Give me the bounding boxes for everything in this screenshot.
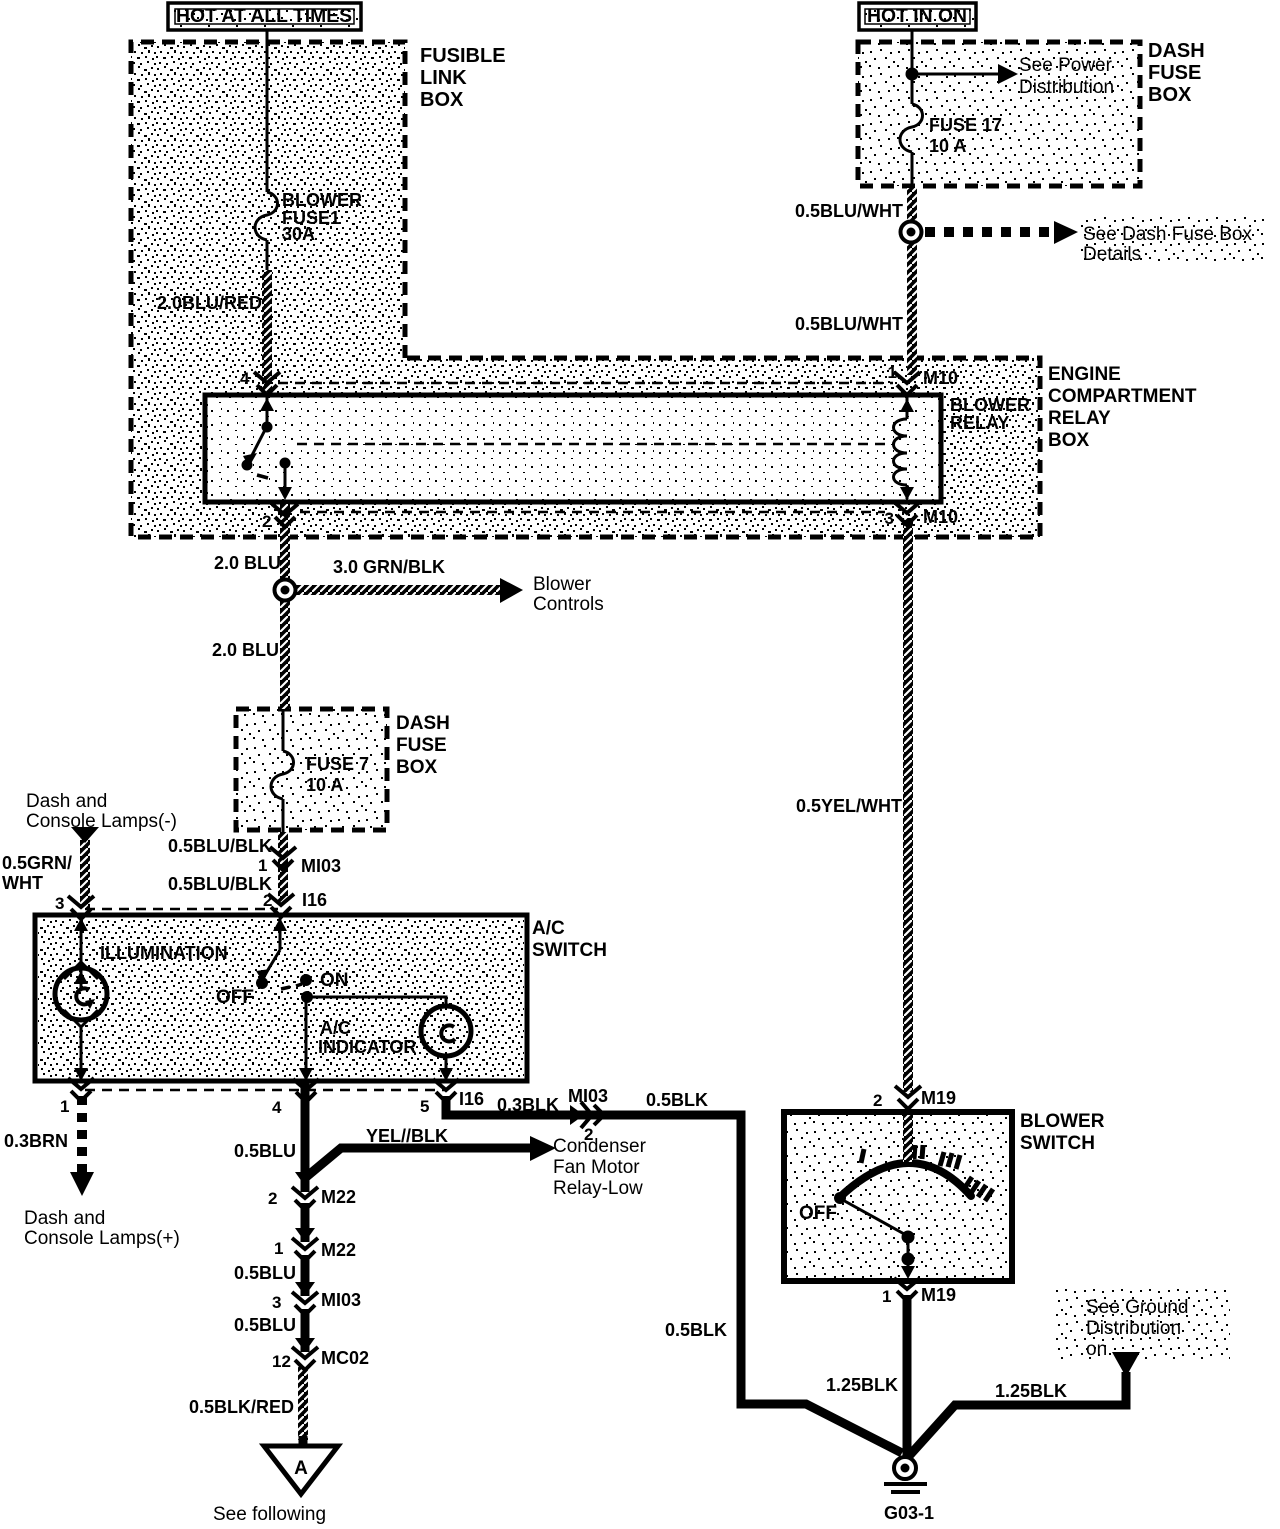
svg-text:OFF: OFF <box>216 987 254 1008</box>
svg-text:0.5GRN/: 0.5GRN/ <box>2 853 72 873</box>
svg-text:MI03: MI03 <box>568 1086 608 1106</box>
svg-text:COMPARTMENT: COMPARTMENT <box>1048 386 1197 407</box>
svg-text:0.5BLK: 0.5BLK <box>646 1090 708 1110</box>
svg-text:Blower: Blower <box>533 574 592 595</box>
svg-text:M10: M10 <box>923 507 958 527</box>
svg-text:MI03: MI03 <box>301 856 341 876</box>
svg-text:Console Lamps(-): Console Lamps(-) <box>26 811 177 832</box>
svg-text:Relay-Low: Relay-Low <box>553 1178 643 1199</box>
svg-text:WHT: WHT <box>2 873 43 893</box>
svg-text:0.5BLU: 0.5BLU <box>234 1141 296 1161</box>
svg-text:0.5YEL/WHT: 0.5YEL/WHT <box>796 796 902 816</box>
svg-text:HOT AT ALL TIMES: HOT AT ALL TIMES <box>176 6 352 27</box>
svg-text:0.5BLU/WHT: 0.5BLU/WHT <box>795 201 903 221</box>
svg-text:M22: M22 <box>321 1187 356 1207</box>
svg-text:Distribution: Distribution <box>1086 1318 1181 1339</box>
svg-text:1: 1 <box>882 1287 891 1306</box>
svg-text:3.0 GRN/BLK: 3.0 GRN/BLK <box>333 557 445 577</box>
svg-text:ILLUMINATION: ILLUMINATION <box>100 943 228 963</box>
svg-text:1.25BLK: 1.25BLK <box>995 1381 1067 1401</box>
svg-text:A/C: A/C <box>532 918 565 939</box>
svg-text:0.5BLK: 0.5BLK <box>665 1320 727 1340</box>
svg-text:3: 3 <box>55 894 64 913</box>
svg-text:FUSE: FUSE <box>1148 62 1201 84</box>
svg-text:5: 5 <box>420 1097 429 1116</box>
svg-text:SWITCH: SWITCH <box>532 940 607 961</box>
svg-text:Dash and: Dash and <box>24 1208 105 1229</box>
svg-text:DASH: DASH <box>396 713 450 734</box>
svg-text:2.0 BLU: 2.0 BLU <box>212 640 279 660</box>
svg-text:M19: M19 <box>921 1088 956 1108</box>
svg-text:M19: M19 <box>921 1285 956 1305</box>
svg-text:0.5BLU/BLK: 0.5BLU/BLK <box>168 874 272 894</box>
svg-text:MI03: MI03 <box>321 1290 361 1310</box>
svg-text:4: 4 <box>272 1098 282 1117</box>
svg-text:BOX: BOX <box>1048 430 1090 451</box>
svg-text:BOX: BOX <box>420 89 464 111</box>
svg-text:A/C: A/C <box>320 1018 351 1038</box>
svg-text:A: A <box>294 1458 308 1479</box>
svg-text:0.5BLK/RED: 0.5BLK/RED <box>189 1397 294 1417</box>
svg-text:ENGINE: ENGINE <box>1048 364 1121 385</box>
svg-text:1: 1 <box>274 1239 283 1258</box>
svg-text:2: 2 <box>268 1189 277 1208</box>
svg-text:G03-1: G03-1 <box>884 1503 934 1523</box>
svg-text:FUSIBLE: FUSIBLE <box>420 45 506 67</box>
svg-text:I16: I16 <box>459 1089 484 1109</box>
svg-text:OFF: OFF <box>799 1203 837 1224</box>
svg-text:RELAY: RELAY <box>950 413 1009 433</box>
svg-text:10 A: 10 A <box>929 136 966 156</box>
svg-text:Controls: Controls <box>533 594 604 615</box>
svg-text:0.3BRN: 0.3BRN <box>4 1131 68 1151</box>
svg-text:Console Lamps(+): Console Lamps(+) <box>24 1228 180 1249</box>
svg-text:SWITCH: SWITCH <box>1020 1133 1095 1154</box>
svg-text:0.5BLU/WHT: 0.5BLU/WHT <box>795 314 903 334</box>
svg-text:BOX: BOX <box>396 757 438 778</box>
svg-text:Fan Motor: Fan Motor <box>553 1157 640 1178</box>
svg-text:FUSE 7: FUSE 7 <box>306 754 369 774</box>
svg-text:RELAY: RELAY <box>1048 408 1111 429</box>
svg-text:Details: Details <box>1083 244 1141 265</box>
svg-text:10 A: 10 A <box>306 775 343 795</box>
svg-text:FUSE: FUSE <box>396 735 447 756</box>
svg-text:YEL//BLK: YEL//BLK <box>366 1126 448 1146</box>
svg-text:1: 1 <box>60 1097 69 1116</box>
svg-text:LINK: LINK <box>420 67 467 89</box>
svg-text:INDICATOR: INDICATOR <box>318 1037 416 1057</box>
svg-text:1: 1 <box>258 856 267 875</box>
svg-text:3: 3 <box>272 1293 281 1312</box>
svg-text:0.5BLU/BLK: 0.5BLU/BLK <box>168 836 272 856</box>
svg-text:BLOWER: BLOWER <box>950 395 1030 415</box>
svg-text:MC02: MC02 <box>321 1348 369 1368</box>
svg-text:1.25BLK: 1.25BLK <box>826 1375 898 1395</box>
svg-text:See Dash Fuse Box: See Dash Fuse Box <box>1083 224 1252 245</box>
svg-text:ON: ON <box>320 970 349 991</box>
svg-text:1: 1 <box>888 363 897 382</box>
svg-text:30A: 30A <box>282 224 315 244</box>
svg-text:See Ground: See Ground <box>1086 1297 1188 1318</box>
svg-text:0.3BLK: 0.3BLK <box>497 1095 559 1115</box>
svg-text:2.0BLU/RED: 2.0BLU/RED <box>157 293 262 313</box>
svg-text:4: 4 <box>240 369 250 388</box>
svg-text:BOX: BOX <box>1148 84 1192 106</box>
svg-text:0.5BLU: 0.5BLU <box>234 1263 296 1283</box>
svg-text:M22: M22 <box>321 1240 356 1260</box>
svg-text:2.0 BLU: 2.0 BLU <box>214 553 281 573</box>
svg-text:2: 2 <box>873 1091 882 1110</box>
svg-text:See Power: See Power <box>1019 55 1113 76</box>
svg-text:I16: I16 <box>302 890 327 910</box>
svg-text:3: 3 <box>885 509 894 528</box>
svg-text:Condenser: Condenser <box>553 1136 647 1157</box>
svg-text:2: 2 <box>262 512 271 531</box>
svg-text:Dash and: Dash and <box>26 791 107 812</box>
svg-text:on: on <box>1086 1339 1107 1360</box>
svg-text:HOT IN ON: HOT IN ON <box>867 6 967 27</box>
svg-text:2: 2 <box>263 891 272 910</box>
svg-text:BLOWER: BLOWER <box>1020 1111 1105 1132</box>
svg-text:12: 12 <box>272 1352 291 1371</box>
svg-text:FUSE 17: FUSE 17 <box>929 115 1002 135</box>
svg-text:DASH: DASH <box>1148 40 1205 62</box>
svg-text:See following: See following <box>213 1504 326 1524</box>
svg-text:BLOWER: BLOWER <box>282 190 362 210</box>
svg-text:0.5BLU: 0.5BLU <box>234 1315 296 1335</box>
svg-text:M10: M10 <box>923 368 958 388</box>
svg-text:Distribution: Distribution <box>1019 77 1114 98</box>
